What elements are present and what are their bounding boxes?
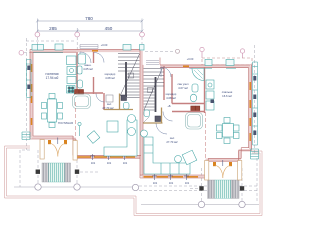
svg-text:4.08 м2: 4.08 м2 (166, 96, 176, 100)
svg-text:101: 101 (153, 181, 158, 185)
svg-text:780: 780 (85, 16, 93, 21)
svg-text:27.70 м2: 27.70 м2 (102, 106, 114, 110)
svg-text:ГОСТИНАЯ: ГОСТИНАЯ (58, 121, 73, 125)
svg-text:+Б: +Б (167, 104, 171, 108)
svg-text:450: 450 (105, 26, 113, 31)
svg-text:27.70 м2: 27.70 м2 (166, 140, 178, 144)
svg-text:4.07 м2: 4.07 м2 (178, 86, 188, 90)
svg-text:101: 101 (107, 161, 112, 165)
svg-text:101: 101 (123, 161, 128, 165)
svg-text:4.05 м2: 4.05 м2 (83, 67, 93, 71)
svg-text:101: 101 (169, 181, 174, 185)
svg-text:4.08 м2: 4.08 м2 (105, 76, 115, 80)
svg-text:101: 101 (91, 161, 96, 165)
svg-text:+0.00: +0.00 (101, 43, 108, 47)
svg-text:16.6 м2: 16.6 м2 (222, 94, 232, 98)
svg-text:101: 101 (185, 181, 190, 185)
svg-text:17.94 м2: 17.94 м2 (46, 76, 59, 80)
svg-text:285: 285 (49, 26, 57, 31)
svg-text:+0.00: +0.00 (187, 57, 194, 61)
